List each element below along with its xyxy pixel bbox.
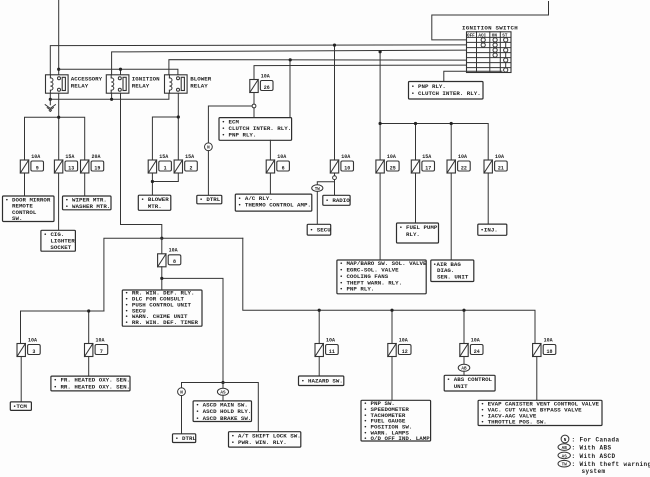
svg-text:OFF: OFF [467, 34, 475, 39]
svg-text:RELAY: RELAY [190, 82, 208, 89]
legend TW with theft warning system [558, 460, 650, 475]
node fuse 17 rail junction [414, 122, 417, 125]
box ABS CONTROL UNIT [444, 375, 495, 391]
ignition switch ACC contacts [481, 38, 485, 47]
box SECU [307, 224, 331, 235]
ground [45, 99, 55, 111]
wire fuses 5-7 rail [21, 311, 104, 344]
wire connector to radio [334, 180, 336, 196]
node fuse 10 feed junction [333, 44, 336, 47]
svg-text:• PWR. WIN. RLY.: • PWR. WIN. RLY. [231, 439, 287, 446]
fuse 12 10A [388, 337, 411, 356]
svg-text:N: N [207, 146, 210, 151]
svg-text:: For Canada: : For Canada [572, 436, 620, 443]
svg-text:10A: 10A [31, 154, 40, 160]
symbol AB with-abs marker [458, 364, 470, 371]
svg-text:TW: TW [562, 463, 568, 468]
svg-text:• DTRL: • DTRL [175, 435, 196, 442]
wire fuse 13 to cigarette lighter [58, 173, 60, 230]
node fuse 7 rail junction [87, 309, 90, 312]
svg-text:10A: 10A [169, 248, 178, 254]
wire fuse 25 to MAP-BARO box [379, 173, 381, 260]
svg-text:RLY.: RLY. [406, 231, 420, 238]
svg-text:6: 6 [282, 165, 285, 171]
wire N marker to DTRL box [207, 151, 209, 196]
node fuse 1-2 tie junction [151, 180, 154, 183]
box RR WIN DEF DLC PUSH SECU WARN TIMER [122, 290, 202, 327]
box PNP SPEEDO TACHO FUEL POSITION WARN OD [361, 400, 431, 442]
svg-text:17: 17 [425, 165, 431, 171]
svg-text:13: 13 [68, 165, 74, 171]
node accessory coil ground junction [49, 98, 52, 101]
fuse 1 15A [148, 154, 171, 173]
node fuse 22 rail junction [450, 122, 453, 125]
box BLOWER MTR [138, 195, 171, 210]
node ECM feed junction on bus [289, 58, 292, 61]
wire bus ON (row5) to blower relay coil [169, 60, 467, 75]
node fuse 12 bus junction [390, 309, 393, 312]
wire relay coil ground rail [50, 93, 169, 99]
symbol AS with-ascd marker [217, 388, 228, 395]
svg-text:15A: 15A [65, 154, 74, 160]
fuse 8 10A [158, 248, 181, 267]
wire fuse 11 to hazard switch [318, 357, 320, 377]
wire fuse 18 to EVAP loads [536, 357, 538, 401]
wire fuse 10 to connector [334, 173, 336, 176]
wire bus ON/ST (row6) to fuse 26 [254, 65, 467, 79]
node fuse 8 output junction [160, 277, 163, 280]
node battery rail junction [57, 68, 60, 71]
box DTRL upper [197, 195, 222, 204]
fuse 19 20A [81, 154, 104, 173]
fuse 21 10A [484, 154, 507, 173]
svg-text:MTR.: MTR. [148, 203, 162, 210]
svg-text:• DTRL: • DTRL [199, 196, 220, 203]
svg-text:SOCKET: SOCKET [50, 244, 71, 251]
connector splice [252, 104, 256, 108]
symbol TW theft-warning marker [312, 185, 323, 192]
svg-text:• THROTTLE POS. SW.: • THROTTLE POS. SW. [481, 419, 547, 426]
svg-text:1: 1 [164, 165, 167, 171]
wire ECM box to fuse 6 [269, 140, 271, 160]
svg-text:10A: 10A [399, 337, 408, 343]
wire fuses 1-2 tie to blower motor [152, 173, 178, 195]
fuse 22 10A [447, 154, 470, 173]
svg-text:19: 19 [94, 165, 100, 171]
svg-text:10A: 10A [471, 337, 480, 343]
svg-text:10A: 10A [277, 154, 286, 160]
svg-text:11: 11 [329, 349, 335, 355]
wire bus row3 tap to fuse rail 25-17-22-21 [379, 52, 381, 160]
ignition switch ST contacts [504, 38, 508, 72]
node fuse 24 bus junction [462, 309, 465, 312]
box HAZARD SW [299, 376, 344, 386]
node fuse 11 bus junction [318, 309, 321, 312]
fuse 7 10A [85, 337, 108, 356]
wire fuse 7 to heated oxygen sensors [88, 357, 90, 377]
node lower branch junction [221, 381, 224, 384]
wire accessory relay output to fuse rail [58, 93, 60, 117]
box ECM CLUTCH INTER RLY PNP RLY [219, 118, 292, 141]
wire fuse 5 to TCM [20, 357, 22, 402]
node trunk junction fuse 8 [160, 237, 163, 240]
svg-text:N: N [180, 391, 183, 396]
box PNP RLY CLUTCH INTER RLY [409, 82, 484, 100]
fuse 10 10A [330, 154, 353, 173]
wire connector to ECM box [253, 108, 255, 118]
wire battery vertical to accessory relay contact [58, 0, 60, 75]
wire fuse 9 to door mirror switch [24, 173, 26, 196]
svg-text:18: 18 [546, 349, 552, 355]
svg-text:• WASHER MTR.: • WASHER MTR. [65, 203, 110, 210]
box AIR BAG DIAG SEN UNIT [431, 260, 474, 282]
svg-text:RELAY: RELAY [132, 82, 150, 89]
wire trunk to fuse 8 [161, 238, 163, 254]
box RADIO [323, 195, 350, 205]
svg-text:: With ASCD: : With ASCD [572, 453, 616, 460]
wire AB marker to ABS box [463, 371, 465, 375]
fuse 9 10A [20, 154, 43, 173]
wire fuse 22 to air bag unit [450, 173, 452, 260]
fuse 24 10A [460, 337, 483, 356]
svg-text:22: 22 [461, 165, 467, 171]
relay ACCESSORY RELAY [46, 75, 103, 93]
wire fuse 21 to injectors [487, 173, 489, 224]
svg-text:9: 9 [36, 165, 39, 171]
svg-text:IGNITION: IGNITION [132, 75, 160, 82]
svg-text:7: 7 [100, 349, 103, 355]
fuse 26 10A [250, 73, 273, 92]
box TCM [10, 402, 31, 411]
wire junction to AS marker [222, 383, 224, 389]
svg-text:SEN. UNIT: SEN. UNIT [437, 273, 469, 280]
node blower fuse rail junction [177, 115, 180, 118]
svg-text:10A: 10A [458, 154, 467, 160]
wire fuse 8 output [162, 267, 223, 383]
svg-text:12: 12 [402, 349, 408, 355]
svg-text:• CLUTCH INTER. RLY.: • CLUTCH INTER. RLY. [411, 90, 481, 97]
box DTRL lower [173, 434, 197, 443]
node rail feed junction [379, 50, 382, 53]
svg-text:24: 24 [474, 349, 480, 355]
wire bus ACC tap to fuse 10 [334, 45, 336, 160]
wire bus ON/ACC (row3) to ignition relay coil [112, 50, 467, 75]
wire fuse rail 9-13-19 [25, 117, 85, 160]
svg-text:• HAZARD SW.: • HAZARD SW. [301, 378, 343, 385]
symbol N for-canada marker lower [178, 388, 186, 396]
node ignition coil ground junction [110, 98, 113, 101]
svg-text:8: 8 [173, 259, 176, 265]
relay IGNITION RELAY [106, 75, 160, 93]
svg-text:10A: 10A [96, 337, 105, 343]
svg-text:• PNP RLY.: • PNP RLY. [222, 132, 257, 139]
wire lower branch rail [182, 383, 259, 432]
box ASCD MAIN HOLD BRAKE [193, 401, 251, 422]
fuse 11 10A [315, 337, 338, 356]
svg-text:•TCM: •TCM [13, 403, 27, 410]
wire trunk bus left [104, 238, 243, 311]
legend N for canada [561, 435, 619, 443]
box AC RLY THERMO CONTROL AMP [235, 194, 311, 211]
svg-text:• O/D OFF IND. LAMP: • O/D OFF IND. LAMP [364, 435, 431, 442]
svg-text:15A: 15A [422, 154, 431, 160]
box WIPER MTR WASHER MTR [63, 196, 112, 210]
svg-text:•INJ.: •INJ. [480, 226, 497, 233]
ignition switch contact table [467, 32, 512, 73]
box MAP BARO EGRC COOLING THEFT PNP [337, 260, 427, 294]
svg-text:IGNITION SWITCH: IGNITION SWITCH [462, 25, 518, 32]
wire battery rail to relay contacts [59, 69, 178, 75]
svg-text:• THERMO CONTROL AMP.: • THERMO CONTROL AMP. [238, 202, 311, 209]
svg-text:• RR. WIN. DEF. TIMER: • RR. WIN. DEF. TIMER [125, 319, 199, 326]
wire blower relay output to fuse rail [152, 93, 178, 160]
fuse 18 10A [533, 337, 556, 356]
ignition switch ON contacts [493, 38, 497, 57]
wire battery feed to ignition switch B terminal [432, 2, 549, 40]
svg-text:BLOWER: BLOWER [190, 75, 211, 82]
box CIG LIGHTER SOCKET [41, 230, 76, 251]
relay BLOWER RELAY [165, 75, 212, 93]
wire fuse 26 to connector [253, 93, 255, 105]
wire AS marker to ASCD box [222, 395, 224, 401]
legend AB with ABS [558, 444, 612, 452]
svg-text:10A: 10A [326, 337, 335, 343]
svg-text:• RR. HEATED OXY. SEN.: • RR. HEATED OXY. SEN. [54, 383, 131, 390]
box INJ [478, 224, 507, 235]
svg-text:10A: 10A [544, 337, 553, 343]
svg-text:10A: 10A [495, 154, 504, 160]
svg-text:AB: AB [562, 446, 568, 451]
wire fuse 6 to AC relay box [269, 173, 271, 194]
wire connector branch to DTRL [208, 106, 252, 143]
wire branch to TW marker [317, 182, 334, 185]
svg-text:26: 26 [264, 85, 270, 91]
fuse 5 10A [17, 337, 40, 356]
svg-text:• PNP RLY.: • PNP RLY. [340, 286, 375, 293]
fuse 25 10A [376, 154, 399, 173]
svg-text:20A: 20A [92, 154, 101, 160]
svg-text:10A: 10A [341, 154, 350, 160]
wire fuse 12 to instrument loads [391, 357, 393, 401]
svg-text:10A: 10A [261, 73, 270, 79]
box DOOR MIRROR REMOTE CONTROL SW. [3, 196, 55, 222]
svg-text:AS: AS [562, 454, 568, 459]
box FR RR HEATED OXY SEN [51, 376, 130, 391]
svg-text:15A: 15A [159, 154, 168, 160]
fuse 17 15A [411, 154, 434, 173]
node ignition relay contact feed [119, 68, 122, 71]
fuse 13 15A [54, 154, 77, 173]
node fuse 25 rail junction [379, 122, 382, 125]
wire bus ON row5 tap to ECM box [289, 60, 291, 118]
svg-text:25: 25 [390, 165, 396, 171]
svg-text:RELAY: RELAY [71, 82, 89, 89]
wire trunk to lower bus [243, 238, 535, 343]
svg-text:system: system [582, 468, 606, 475]
svg-text:ACCESSORY: ACCESSORY [71, 75, 103, 82]
svg-text:• ASCD BRAKE SW.: • ASCD BRAKE SW. [196, 415, 252, 422]
fuse 6 10A [266, 154, 289, 173]
svg-text:: With theft warning: : With theft warning [572, 461, 650, 468]
wire bus ACC (row2) to accessory relay coil [50, 45, 466, 75]
svg-text:10: 10 [344, 165, 350, 171]
svg-text:N: N [564, 438, 567, 443]
svg-text:: With ABS: : With ABS [572, 445, 612, 452]
svg-text:10A: 10A [387, 154, 396, 160]
box FUEL PUMP RLY [397, 223, 439, 243]
wire ignition switch ST to PNP relay box [444, 71, 502, 81]
box AT SHIFT LOCK PWR WIN RLY [229, 432, 301, 447]
fuse 2 15A [174, 154, 197, 173]
svg-text:• RADIO: • RADIO [325, 197, 350, 204]
svg-text:2: 2 [189, 165, 192, 171]
wire fuse 19 to wiper motor [84, 173, 86, 196]
wire N marker to DTRL lower box [181, 396, 183, 434]
symbol N for-canada marker upper [205, 143, 213, 151]
svg-text:10A: 10A [28, 337, 37, 343]
wire TW marker to SECU box [316, 191, 318, 224]
svg-text:• SECU: • SECU [310, 226, 331, 233]
ignition switch label [462, 25, 518, 32]
wire fuse rail 25-17-22-21 [380, 124, 488, 161]
connector splice radio [333, 176, 337, 180]
svg-text:UNIT: UNIT [454, 383, 468, 390]
legend AS with ASCD [558, 452, 616, 460]
svg-text:21: 21 [498, 165, 504, 171]
wire fuse 24 to AB marker [463, 357, 465, 365]
node fuse 13 rail junction [57, 116, 60, 119]
svg-text:SW.: SW. [12, 215, 22, 222]
svg-text:15A: 15A [185, 154, 194, 160]
box EVAP VAC IACV THROTTLE [478, 400, 602, 425]
wire fuse 17 to fuel pump relay [415, 173, 417, 223]
svg-text:3: 3 [32, 349, 35, 355]
wire ignition relay output trunk [121, 93, 162, 238]
